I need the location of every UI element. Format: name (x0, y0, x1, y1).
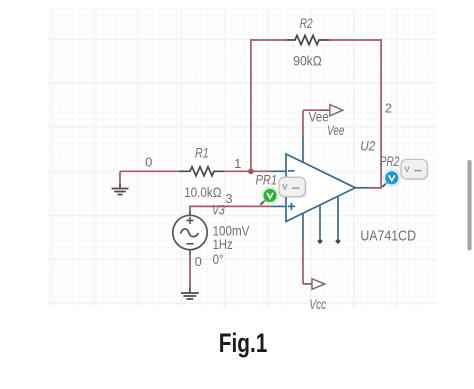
wire (224, 170, 272, 172)
svg-text:0: 0 (195, 254, 202, 269)
probe PR2 (382, 169, 401, 187)
ground (181, 288, 199, 300)
svg-text:UA741CD: UA741CD (360, 229, 416, 245)
svg-text:0°: 0° (213, 251, 224, 267)
source V3 (173, 211, 207, 255)
power Vee (320, 105, 343, 116)
svg-text:1Hz: 1Hz (213, 236, 233, 252)
wire (329, 40, 381, 188)
junction (248, 169, 254, 175)
svg-text:90kΩ: 90kΩ (293, 53, 321, 69)
svg-text:v: v (404, 163, 410, 175)
resistor R1 (179, 167, 224, 176)
svg-text:Vee: Vee (309, 109, 329, 125)
svg-text:R2: R2 (300, 15, 313, 31)
svg-text:0: 0 (145, 155, 152, 170)
svg-text:Fig.1: Fig.1 (219, 328, 267, 358)
wire (189, 255, 191, 289)
scrollbar (467, 160, 471, 251)
svg-text:3: 3 (225, 191, 232, 206)
wire (251, 40, 287, 171)
wire (302, 241, 304, 284)
op-amp U2 (272, 134, 368, 241)
probe PR2 readout box (401, 159, 429, 180)
svg-text:v: v (282, 181, 288, 193)
svg-text:1: 1 (234, 156, 241, 171)
wire (190, 206, 272, 215)
svg-text:Vee: Vee (327, 122, 345, 138)
svg-text:PR1: PR1 (256, 171, 278, 187)
svg-text:2: 2 (385, 101, 392, 116)
svg-text:10.0kΩ: 10.0kΩ (184, 184, 221, 200)
wire (120, 171, 180, 185)
ground (112, 184, 129, 195)
probe PR1 (260, 186, 279, 204)
probe PR1 readout box (279, 177, 307, 198)
pin diamond (317, 238, 323, 244)
pin diamond (335, 238, 341, 244)
resistor R2 (286, 35, 329, 44)
svg-text:V3: V3 (212, 202, 225, 217)
power Vcc (303, 279, 325, 289)
svg-text:Vcc: Vcc (309, 296, 326, 312)
svg-text:U2: U2 (360, 137, 375, 153)
svg-text:R1: R1 (195, 144, 209, 160)
wire (303, 110, 320, 134)
svg-text:PR2: PR2 (380, 153, 400, 169)
